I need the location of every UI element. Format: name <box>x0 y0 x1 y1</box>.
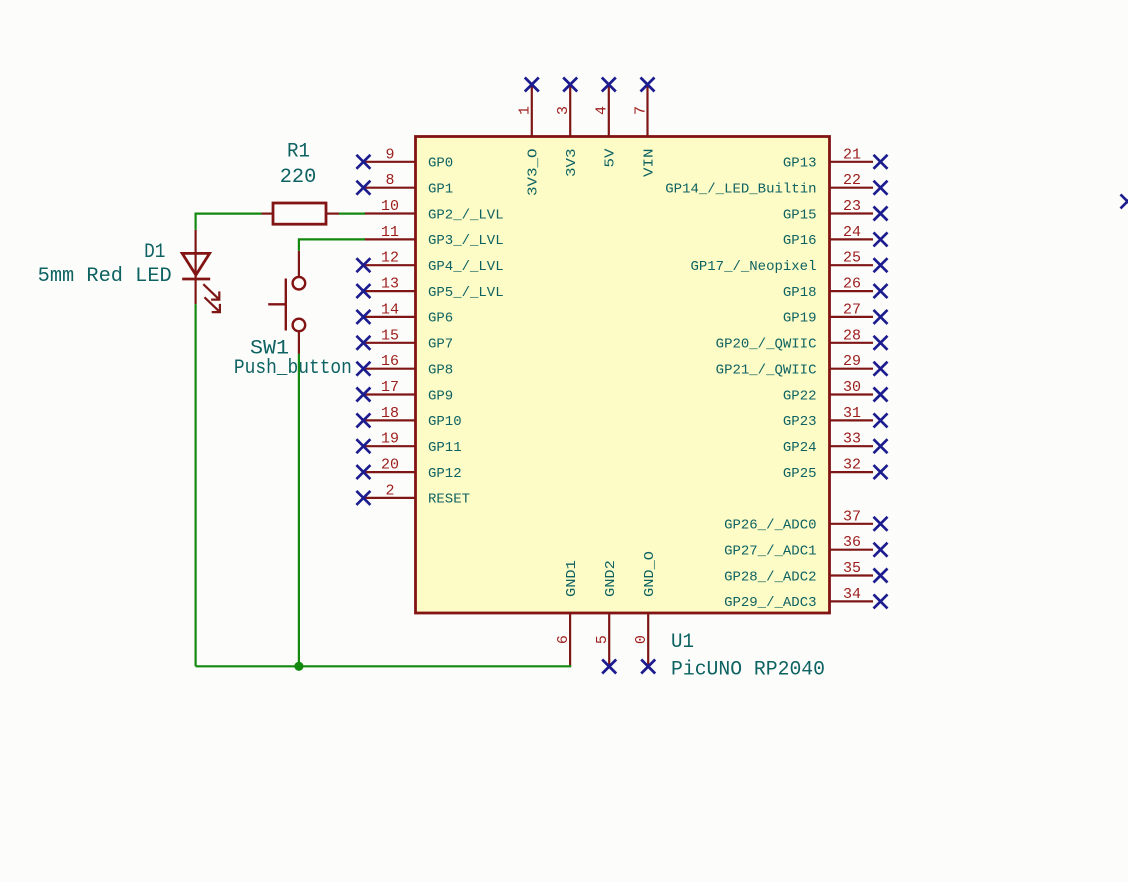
svg-text:GP6: GP6 <box>428 311 453 327</box>
svg-text:3V3: 3V3 <box>564 149 580 178</box>
wire LED cathode down <box>195 304 197 666</box>
pin 12 GP4_/_LVL <box>356 250 503 275</box>
svg-text:9: 9 <box>385 146 394 163</box>
wire SW1 down to ground bus <box>298 354 300 666</box>
svg-text:3: 3 <box>555 106 572 115</box>
pin 5 GND2 <box>594 560 619 673</box>
svg-text:33: 33 <box>843 431 861 448</box>
svg-text:22: 22 <box>843 172 861 189</box>
pin 2 RESET <box>356 482 470 507</box>
svg-text:GP24: GP24 <box>783 440 817 456</box>
svg-text:GP15: GP15 <box>783 207 817 223</box>
pin 37 GP26_/_ADC0 <box>724 508 887 533</box>
svg-text:16: 16 <box>381 353 399 370</box>
pin 0 GND_O <box>633 551 658 674</box>
svg-text:GP29_/_ADC3: GP29_/_ADC3 <box>724 595 816 611</box>
wire R1 to pin 10 GP2 <box>339 213 365 215</box>
pin 9 GP0 <box>356 146 453 171</box>
svg-text:GP18: GP18 <box>783 285 817 301</box>
wire ground bus to GND1 <box>196 665 570 666</box>
svg-text:GP7: GP7 <box>428 337 453 353</box>
svg-text:GP27_/_ADC1: GP27_/_ADC1 <box>724 544 816 560</box>
svg-text:GP10: GP10 <box>428 414 462 430</box>
svg-text:Push_button: Push_button <box>234 357 352 380</box>
svg-text:5mm Red LED: 5mm Red LED <box>38 265 172 288</box>
pin 11 GP3_/_LVL <box>364 224 504 249</box>
svg-text:GP9: GP9 <box>428 388 453 404</box>
pin 22 GP14_/_LED_Builtin <box>665 172 887 197</box>
pin 32 GP25 <box>783 457 888 482</box>
LED D1 <box>182 230 220 312</box>
svg-text:GP14_/_LED_Builtin: GP14_/_LED_Builtin <box>665 182 816 198</box>
svg-text:19: 19 <box>381 431 399 448</box>
svg-text:21: 21 <box>843 146 861 163</box>
svg-text:U1: U1 <box>671 631 694 654</box>
no-connect X at right edge <box>1121 194 1128 208</box>
pin 30 GP22 <box>783 379 888 404</box>
svg-text:GND_O: GND_O <box>642 551 658 597</box>
svg-text:12: 12 <box>381 250 399 267</box>
svg-text:4: 4 <box>594 106 611 115</box>
pin 36 GP27_/_ADC1 <box>724 534 887 559</box>
pin 18 GP10 <box>356 405 461 430</box>
svg-text:34: 34 <box>843 586 861 603</box>
svg-text:15: 15 <box>381 327 399 344</box>
junction at SW1/ground bus <box>294 662 303 671</box>
pin 13 GP5_/_LVL <box>356 276 503 301</box>
svg-text:GP0: GP0 <box>428 156 453 172</box>
pin 7 VIN <box>632 78 657 178</box>
svg-text:220: 220 <box>280 166 317 189</box>
pin 1 3V3_O <box>517 78 542 197</box>
svg-text:GP12: GP12 <box>428 466 462 482</box>
svg-text:23: 23 <box>843 198 861 215</box>
pin 6 GND1 <box>555 560 580 666</box>
svg-text:VIN: VIN <box>641 149 657 178</box>
wire R1 to LED anode corner <box>196 214 262 230</box>
pin 17 GP9 <box>356 379 453 404</box>
svg-text:D1: D1 <box>144 241 165 264</box>
pin 16 GP8 <box>356 353 453 378</box>
svg-text:7: 7 <box>632 106 649 115</box>
pin 34 GP29_/_ADC3 <box>724 586 887 611</box>
svg-text:24: 24 <box>843 224 861 241</box>
svg-text:5: 5 <box>594 635 611 644</box>
svg-text:GP16: GP16 <box>783 233 817 249</box>
wire pin 11 GP3 to SW1 <box>299 239 365 250</box>
svg-text:13: 13 <box>381 276 399 293</box>
pin 25 GP17_/_Neopixel <box>690 250 887 275</box>
svg-text:18: 18 <box>381 405 399 422</box>
pin 24 GP16 <box>783 224 888 249</box>
IC U1 body <box>416 137 830 614</box>
svg-text:R1: R1 <box>287 141 310 164</box>
svg-text:17: 17 <box>381 379 399 396</box>
pin 14 GP6 <box>356 301 453 326</box>
pin 8 GP1 <box>356 172 453 197</box>
pin 15 GP7 <box>356 327 453 352</box>
svg-text:GP21_/_QWIIC: GP21_/_QWIIC <box>716 363 817 379</box>
svg-text:11: 11 <box>381 224 399 241</box>
svg-text:GP19: GP19 <box>783 311 817 327</box>
svg-text:GP5_/_LVL: GP5_/_LVL <box>428 285 504 301</box>
svg-text:26: 26 <box>843 276 861 293</box>
pin 28 GP20_/_QWIIC <box>716 327 888 352</box>
pin 21 GP13 <box>783 146 888 171</box>
svg-text:GP11: GP11 <box>428 440 462 456</box>
pin 19 GP11 <box>356 431 461 456</box>
svg-text:GP1: GP1 <box>428 182 453 198</box>
svg-text:8: 8 <box>385 172 394 189</box>
svg-text:31: 31 <box>843 405 861 422</box>
svg-text:GP25: GP25 <box>783 466 817 482</box>
svg-text:GP20_/_QWIIC: GP20_/_QWIIC <box>716 337 817 353</box>
svg-text:RESET: RESET <box>428 492 470 508</box>
svg-text:6: 6 <box>555 635 572 644</box>
svg-text:2: 2 <box>385 482 394 499</box>
pin 23 GP15 <box>783 198 888 223</box>
switch SW1 <box>268 251 305 354</box>
pin 33 GP24 <box>783 431 888 456</box>
svg-text:GND2: GND2 <box>603 560 619 597</box>
pin 10 GP2_/_LVL <box>364 198 504 223</box>
pin 29 GP21_/_QWIIC <box>716 353 888 378</box>
pin 35 GP28_/_ADC2 <box>724 560 887 585</box>
svg-text:25: 25 <box>843 250 861 267</box>
svg-text:1: 1 <box>517 106 534 115</box>
pin 20 GP12 <box>356 457 461 482</box>
resistor R1 <box>262 203 340 224</box>
svg-text:36: 36 <box>843 534 861 551</box>
svg-text:20: 20 <box>381 457 399 474</box>
svg-text:30: 30 <box>843 379 861 396</box>
svg-text:GP22: GP22 <box>783 388 817 404</box>
pin 4 5V <box>594 78 619 168</box>
svg-text:5V: 5V <box>603 148 619 168</box>
svg-text:32: 32 <box>843 457 861 474</box>
svg-text:27: 27 <box>843 301 861 318</box>
svg-text:0: 0 <box>633 635 650 644</box>
svg-text:14: 14 <box>381 301 399 318</box>
pin 26 GP18 <box>783 276 888 301</box>
svg-text:GP3_/_LVL: GP3_/_LVL <box>428 233 504 249</box>
pin 31 GP23 <box>783 405 888 430</box>
svg-text:3V3_O: 3V3_O <box>526 149 542 197</box>
svg-text:GP23: GP23 <box>783 414 817 430</box>
pin 27 GP19 <box>783 301 888 326</box>
svg-text:29: 29 <box>843 353 861 370</box>
svg-text:10: 10 <box>381 198 399 215</box>
svg-text:28: 28 <box>843 327 861 344</box>
svg-text:GP26_/_ADC0: GP26_/_ADC0 <box>724 518 816 534</box>
svg-text:GP8: GP8 <box>428 363 453 379</box>
pin 3 3V3 <box>555 78 580 178</box>
svg-text:GP2_/_LVL: GP2_/_LVL <box>428 207 504 223</box>
svg-text:35: 35 <box>843 560 861 577</box>
svg-text:37: 37 <box>843 508 861 525</box>
svg-text:GP28_/_ADC2: GP28_/_ADC2 <box>724 569 816 585</box>
svg-text:GND1: GND1 <box>564 560 580 597</box>
svg-text:GP4_/_LVL: GP4_/_LVL <box>428 259 504 275</box>
svg-text:GP17_/_Neopixel: GP17_/_Neopixel <box>690 259 816 275</box>
svg-text:PicUNO RP2040: PicUNO RP2040 <box>671 659 825 682</box>
svg-text:GP13: GP13 <box>783 156 817 172</box>
